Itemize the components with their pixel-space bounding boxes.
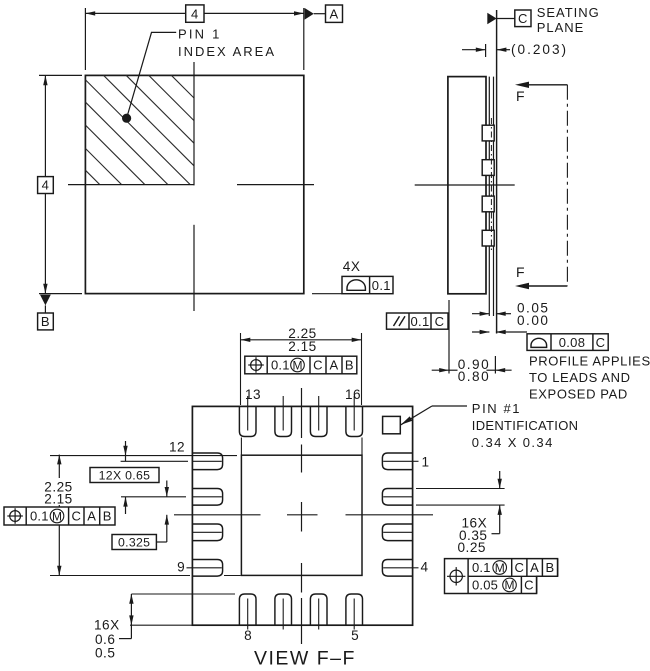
svg-text:0.1: 0.1 bbox=[472, 560, 491, 575]
16X 0.6/0.5 pad length dimension bbox=[131, 593, 235, 595]
parallelism symbol bbox=[394, 316, 400, 326]
right composite position feature control frame bbox=[445, 559, 558, 594]
right edge pads 1-4 bbox=[382, 453, 412, 470]
left position feature control frame bbox=[4, 507, 115, 525]
left height dimension line "4" bbox=[44, 75, 46, 176]
top lead span dimension 2.25/2.15 bbox=[240, 333, 242, 405]
top width dimension: extension lines bbox=[84, 8, 86, 70]
(0.203) dimension bbox=[485, 44, 487, 57]
svg-text:A: A bbox=[530, 560, 539, 575]
pad 11 centerline extension bbox=[121, 496, 186, 498]
svg-text:PROFILE APPLIES: PROFILE APPLIES bbox=[529, 354, 650, 369]
bottom view vertical centerline bbox=[301, 388, 303, 438]
left lead span dimension 2.25/2.15 bbox=[50, 455, 237, 457]
exposed pad corner extension ticks bbox=[240, 438, 242, 456]
pin 1 leader line bbox=[127, 32, 177, 118]
svg-text:B: B bbox=[546, 560, 555, 575]
top view package body outline bbox=[85, 75, 303, 293]
svg-text:A: A bbox=[87, 509, 96, 524]
datum B symbol bbox=[40, 295, 51, 306]
svg-text:C: C bbox=[71, 509, 81, 524]
top edge pads 13-16 bbox=[239, 406, 256, 436]
section arrows F-F bbox=[522, 84, 567, 86]
svg-text:EXPOSED PAD: EXPOSED PAD bbox=[529, 387, 628, 402]
svg-text:A: A bbox=[330, 358, 339, 373]
svg-text:4X: 4X bbox=[343, 259, 361, 274]
side view lead profile lines bbox=[488, 77, 490, 316]
svg-text:C: C bbox=[596, 335, 606, 350]
svg-text:1: 1 bbox=[422, 455, 430, 470]
top view vertical centerline bbox=[193, 62, 195, 185]
svg-text:0.325: 0.325 bbox=[118, 535, 150, 549]
pad 10 centerline bbox=[192, 531, 221, 533]
svg-text:F: F bbox=[516, 264, 525, 280]
svg-text:5: 5 bbox=[351, 628, 359, 643]
svg-text:0.00: 0.00 bbox=[517, 313, 549, 328]
side view body outline bbox=[448, 77, 486, 294]
svg-text:12X 0.65: 12X 0.65 bbox=[99, 468, 151, 482]
position symbol bbox=[248, 357, 264, 373]
left edge pads 12-9 bbox=[192, 453, 222, 470]
svg-text:12: 12 bbox=[169, 440, 185, 455]
svg-text:0.5: 0.5 bbox=[95, 646, 115, 661]
svg-text:F: F bbox=[516, 88, 525, 104]
svg-text:16X: 16X bbox=[94, 618, 120, 633]
pad 12 centerline (pitch reference) bbox=[121, 460, 188, 462]
16X 0.35/0.25 pad width dimension bbox=[416, 488, 505, 490]
0.325 half pitch dimension bbox=[166, 481, 168, 497]
svg-text:0.80: 0.80 bbox=[458, 369, 490, 384]
svg-text:SEATING: SEATING bbox=[537, 5, 600, 20]
svg-text:M: M bbox=[505, 578, 515, 592]
svg-text:4: 4 bbox=[421, 560, 429, 575]
svg-text:0.05: 0.05 bbox=[472, 577, 498, 592]
svg-text:M: M bbox=[495, 561, 505, 575]
svg-text:IDENTIFICATION: IDENTIFICATION bbox=[472, 418, 579, 433]
svg-text:4: 4 bbox=[191, 6, 199, 21]
left height dimension: extension lines bbox=[39, 74, 82, 76]
svg-text:0.25: 0.25 bbox=[458, 540, 486, 555]
profile tolerance arrows and leader bbox=[472, 331, 489, 333]
svg-text:C: C bbox=[518, 11, 528, 26]
svg-text:PLANE: PLANE bbox=[537, 20, 585, 35]
svg-text:M: M bbox=[293, 358, 303, 372]
svg-text:0.1: 0.1 bbox=[372, 278, 391, 293]
row1 0.1 M C A B bbox=[511, 559, 513, 577]
svg-text:4: 4 bbox=[42, 178, 50, 193]
bottom edge pads 8-5 bbox=[239, 594, 256, 625]
row2 0.05 M C bbox=[520, 576, 522, 593]
datum C symbol and seating plane note bbox=[487, 13, 496, 24]
pad 9 centerline and label dash bbox=[187, 567, 222, 569]
svg-text:C: C bbox=[435, 314, 445, 329]
0.90/0.80 body thickness dimension bbox=[448, 300, 450, 374]
bottom view horizontal centerline bbox=[174, 514, 261, 516]
0.05/0.00 lead standoff dimension bbox=[472, 313, 489, 315]
side view lead centerline bbox=[490, 118, 492, 253]
pin 1 index dot bbox=[122, 114, 131, 123]
side view lead bumps bbox=[482, 125, 494, 141]
svg-text:13: 13 bbox=[245, 387, 261, 402]
svg-text:0.1: 0.1 bbox=[411, 314, 430, 329]
svg-text:2.15: 2.15 bbox=[44, 491, 72, 506]
top view horizontal centerline bbox=[68, 184, 195, 186]
parallelism feature control frame //|0.1|C bbox=[387, 313, 449, 329]
svg-text:C: C bbox=[524, 577, 534, 592]
exposed thermal pad bbox=[241, 455, 362, 575]
svg-text:0.08: 0.08 bbox=[559, 335, 586, 350]
svg-text:16: 16 bbox=[345, 387, 361, 402]
svg-text:PIN #1: PIN #1 bbox=[472, 401, 521, 416]
top width dimension line "4" bbox=[85, 12, 303, 14]
svg-text:C: C bbox=[313, 358, 323, 373]
pin #1 identification leader bbox=[401, 406, 432, 425]
profile symbol (dome) in 4X frame bbox=[347, 280, 365, 290]
svg-text:VIEW F–F: VIEW F–F bbox=[254, 648, 356, 670]
svg-text:C: C bbox=[514, 560, 524, 575]
svg-text:0.1: 0.1 bbox=[30, 509, 49, 524]
svg-text:B: B bbox=[345, 358, 354, 373]
seating plane line bbox=[496, 10, 498, 334]
svg-text:(0.203): (0.203) bbox=[511, 42, 568, 57]
datum A symbol bbox=[305, 8, 314, 20]
svg-text:M: M bbox=[52, 509, 62, 523]
svg-text:9: 9 bbox=[177, 560, 185, 575]
svg-text:B: B bbox=[103, 509, 112, 524]
side view horizontal centerline bbox=[415, 184, 515, 186]
svg-text:PIN 1: PIN 1 bbox=[178, 27, 222, 42]
top position feature control frame bbox=[245, 356, 357, 374]
svg-text:A: A bbox=[330, 6, 339, 21]
pin #1 identification square bbox=[383, 416, 401, 433]
svg-text:0.1: 0.1 bbox=[271, 358, 290, 373]
svg-text:2.15: 2.15 bbox=[288, 339, 316, 354]
profile feature control frame 0.08|C bbox=[527, 334, 608, 351]
svg-text:TO LEADS AND: TO LEADS AND bbox=[529, 370, 631, 385]
svg-text:INDEX AREA: INDEX AREA bbox=[178, 44, 276, 59]
svg-text:0.34 X 0.34: 0.34 X 0.34 bbox=[472, 435, 554, 450]
bottom view body outline bbox=[192, 406, 412, 625]
12X 0.65 pitch dimension bbox=[125, 441, 127, 461]
svg-text:8: 8 bbox=[244, 628, 252, 643]
svg-text:B: B bbox=[41, 314, 50, 329]
